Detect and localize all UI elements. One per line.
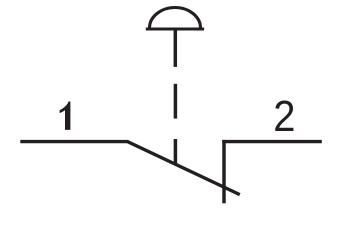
linkage dash upper <box>174 84 178 119</box>
terminal 1 wire <box>20 140 128 143</box>
pushbutton mushroom-head actuator S1 <box>146 7 204 66</box>
actuator base bar <box>146 27 204 30</box>
fixed contact post of terminal 2 <box>222 140 226 203</box>
mechanical linkage (dashed) <box>174 84 178 164</box>
moving contact lever (normally-closed) <box>128 142 240 195</box>
pin label 1 <box>60 102 71 130</box>
terminal 2 wire <box>222 140 322 143</box>
actuator stem <box>174 29 178 67</box>
linkage dash lower <box>174 139 178 164</box>
svg-text:2: 2 <box>273 92 295 141</box>
actuator head (dome arc) <box>150 7 201 28</box>
